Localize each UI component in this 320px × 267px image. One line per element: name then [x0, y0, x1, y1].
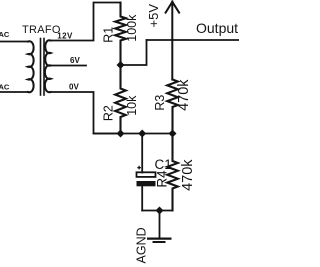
- wire AC top: [0, 41, 28, 43]
- wire junction to output: [121, 40, 147, 65]
- transformer core line 2: [43, 39, 45, 96]
- +5V arrow head: [166, 2, 180, 13]
- node junction R2 bottom: [117, 130, 125, 138]
- svg-text:AGND: AGND: [135, 227, 149, 263]
- resistor R2: [115, 65, 126, 134]
- svg-text:R2: R2: [102, 105, 116, 121]
- node junction ground: [156, 207, 164, 215]
- capacitor C1 lead top: [141, 134, 143, 173]
- transformer TR1 secondary winding: [45, 40, 51, 92]
- svg-text:100k: 100k: [125, 14, 139, 42]
- svg-text:12V: 12V: [57, 32, 73, 41]
- wire 6V tap stub: [51, 65, 87, 67]
- svg-text:0V: 0V: [69, 83, 79, 92]
- svg-text:R4: R4: [155, 170, 170, 188]
- ground AGND bars: [147, 239, 172, 242]
- resistor R4: [167, 134, 178, 211]
- svg-text:AC: AC: [0, 82, 10, 91]
- svg-text:470k: 470k: [180, 159, 196, 191]
- svg-text:10k: 10k: [125, 95, 139, 116]
- capacitor C1 plus sign: [137, 166, 141, 170]
- svg-text:TRAFO: TRAFO: [22, 24, 61, 36]
- svg-text:Output: Output: [196, 20, 238, 36]
- wire 12V tap: [51, 3, 121, 41]
- svg-text:R3: R3: [153, 95, 167, 111]
- svg-text:C1: C1: [155, 157, 172, 172]
- svg-text:R1: R1: [102, 27, 116, 43]
- ground stem: [159, 211, 161, 238]
- node junction R3/R4: [169, 130, 177, 138]
- capacitor C1 bottom plate: [137, 181, 156, 186]
- svg-text:6V: 6V: [70, 56, 80, 65]
- capacitor C1 lead bottom: [141, 187, 143, 211]
- wire bottom rail: [142, 210, 172, 212]
- wire Output net: [147, 39, 240, 41]
- node junction R1/R2/output: [117, 61, 125, 69]
- resistor R3: [167, 80, 178, 134]
- wire 0V tap: [51, 92, 121, 134]
- transformer TR1 primary winding: [28, 41, 34, 92]
- wire AC bottom: [0, 91, 28, 93]
- transformer core line 1: [40, 39, 42, 96]
- wire ground rail: [94, 133, 173, 135]
- svg-text:470k: 470k: [176, 79, 192, 111]
- svg-text:AC: AC: [0, 30, 10, 39]
- node junction C1 top: [138, 130, 146, 138]
- resistor R1: [115, 3, 126, 66]
- capacitor C1 top plate: [137, 172, 156, 177]
- +5V supply line: [171, 2, 173, 80]
- svg-text:+5V: +5V: [146, 4, 161, 28]
